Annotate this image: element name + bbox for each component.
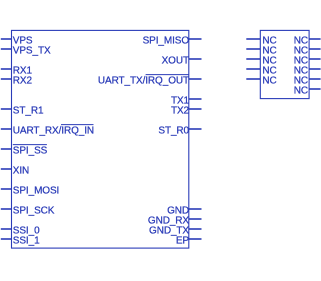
NC pin R3 wire bbox=[309, 58, 321, 60]
svg-text:SPI_MISO: SPI_MISO bbox=[143, 35, 190, 46]
IC U1 body bbox=[12, 30, 189, 248]
pin RX1 wire bbox=[1, 68, 12, 70]
pin GND_TX wire bbox=[189, 228, 202, 230]
svg-text:SSI_1: SSI_1 bbox=[13, 235, 40, 246]
IC U2 body (NC block) bbox=[260, 30, 309, 98]
pin SPI_MOSI wire bbox=[1, 188, 12, 190]
pin GND_RX wire bbox=[189, 218, 202, 220]
pin TX1 wire bbox=[189, 98, 202, 100]
pin SSI_1 wire bbox=[1, 238, 12, 240]
pin SPI_MISO wire bbox=[189, 38, 202, 40]
pin VPS wire bbox=[1, 38, 12, 40]
NC pin L1 wire bbox=[246, 38, 260, 40]
pin GND wire bbox=[189, 208, 202, 210]
NC pin R4 wire bbox=[309, 68, 321, 70]
overline over SPI_SS bbox=[13, 144, 47, 146]
svg-text:SPI_SCK: SPI_SCK bbox=[13, 205, 55, 216]
svg-text:TX2: TX2 bbox=[171, 105, 190, 116]
svg-text:ST_R1: ST_R1 bbox=[13, 105, 44, 116]
svg-text:SPI_SS: SPI_SS bbox=[13, 145, 48, 156]
svg-text:ST_R0: ST_R0 bbox=[158, 125, 189, 136]
svg-text:NC: NC bbox=[262, 75, 276, 86]
overline over IRQ_IN bbox=[61, 124, 94, 126]
pin UART_RX/IRQ_IN wire bbox=[1, 128, 12, 130]
svg-text:NC: NC bbox=[294, 85, 308, 96]
svg-text:RX2: RX2 bbox=[13, 75, 33, 86]
pin SPI_SS wire bbox=[1, 148, 12, 150]
pin EP wire bbox=[189, 238, 202, 240]
pin ST_R1 wire bbox=[1, 108, 12, 110]
pin ST_R0 wire bbox=[189, 128, 202, 130]
svg-text:UART_TX/IRQ_OUT: UART_TX/IRQ_OUT bbox=[98, 75, 189, 86]
svg-text:VPS_TX: VPS_TX bbox=[13, 45, 51, 56]
NC pin R1 wire bbox=[309, 38, 321, 40]
pin SSI_0 wire bbox=[1, 228, 12, 230]
svg-text:EP: EP bbox=[176, 235, 190, 246]
NC pin L2 wire bbox=[246, 48, 260, 50]
svg-text:XIN: XIN bbox=[13, 165, 29, 176]
NC pin R2 wire bbox=[309, 48, 321, 50]
svg-text:XOUT: XOUT bbox=[162, 55, 189, 66]
pin XOUT wire bbox=[189, 58, 202, 60]
pin SPI_SCK wire bbox=[1, 208, 12, 210]
pin XIN wire bbox=[1, 168, 12, 170]
NC pin R6 wire bbox=[309, 88, 321, 90]
pin UART_TX/IRQ_OUT wire bbox=[189, 78, 202, 80]
NC pin L4 wire bbox=[246, 68, 260, 70]
pin TX2 wire bbox=[189, 108, 202, 110]
pin RX2 wire bbox=[1, 78, 12, 80]
pin VPS_TX wire bbox=[1, 48, 12, 50]
NC pin R5 wire bbox=[309, 78, 321, 80]
svg-text:SPI_MOSI: SPI_MOSI bbox=[13, 185, 59, 196]
NC pin L3 wire bbox=[246, 58, 260, 60]
overline over IRQ_OUT bbox=[146, 74, 189, 76]
svg-text:UART_RX/IRQ_IN: UART_RX/IRQ_IN bbox=[13, 125, 94, 136]
NC pin L5 wire bbox=[246, 78, 260, 80]
